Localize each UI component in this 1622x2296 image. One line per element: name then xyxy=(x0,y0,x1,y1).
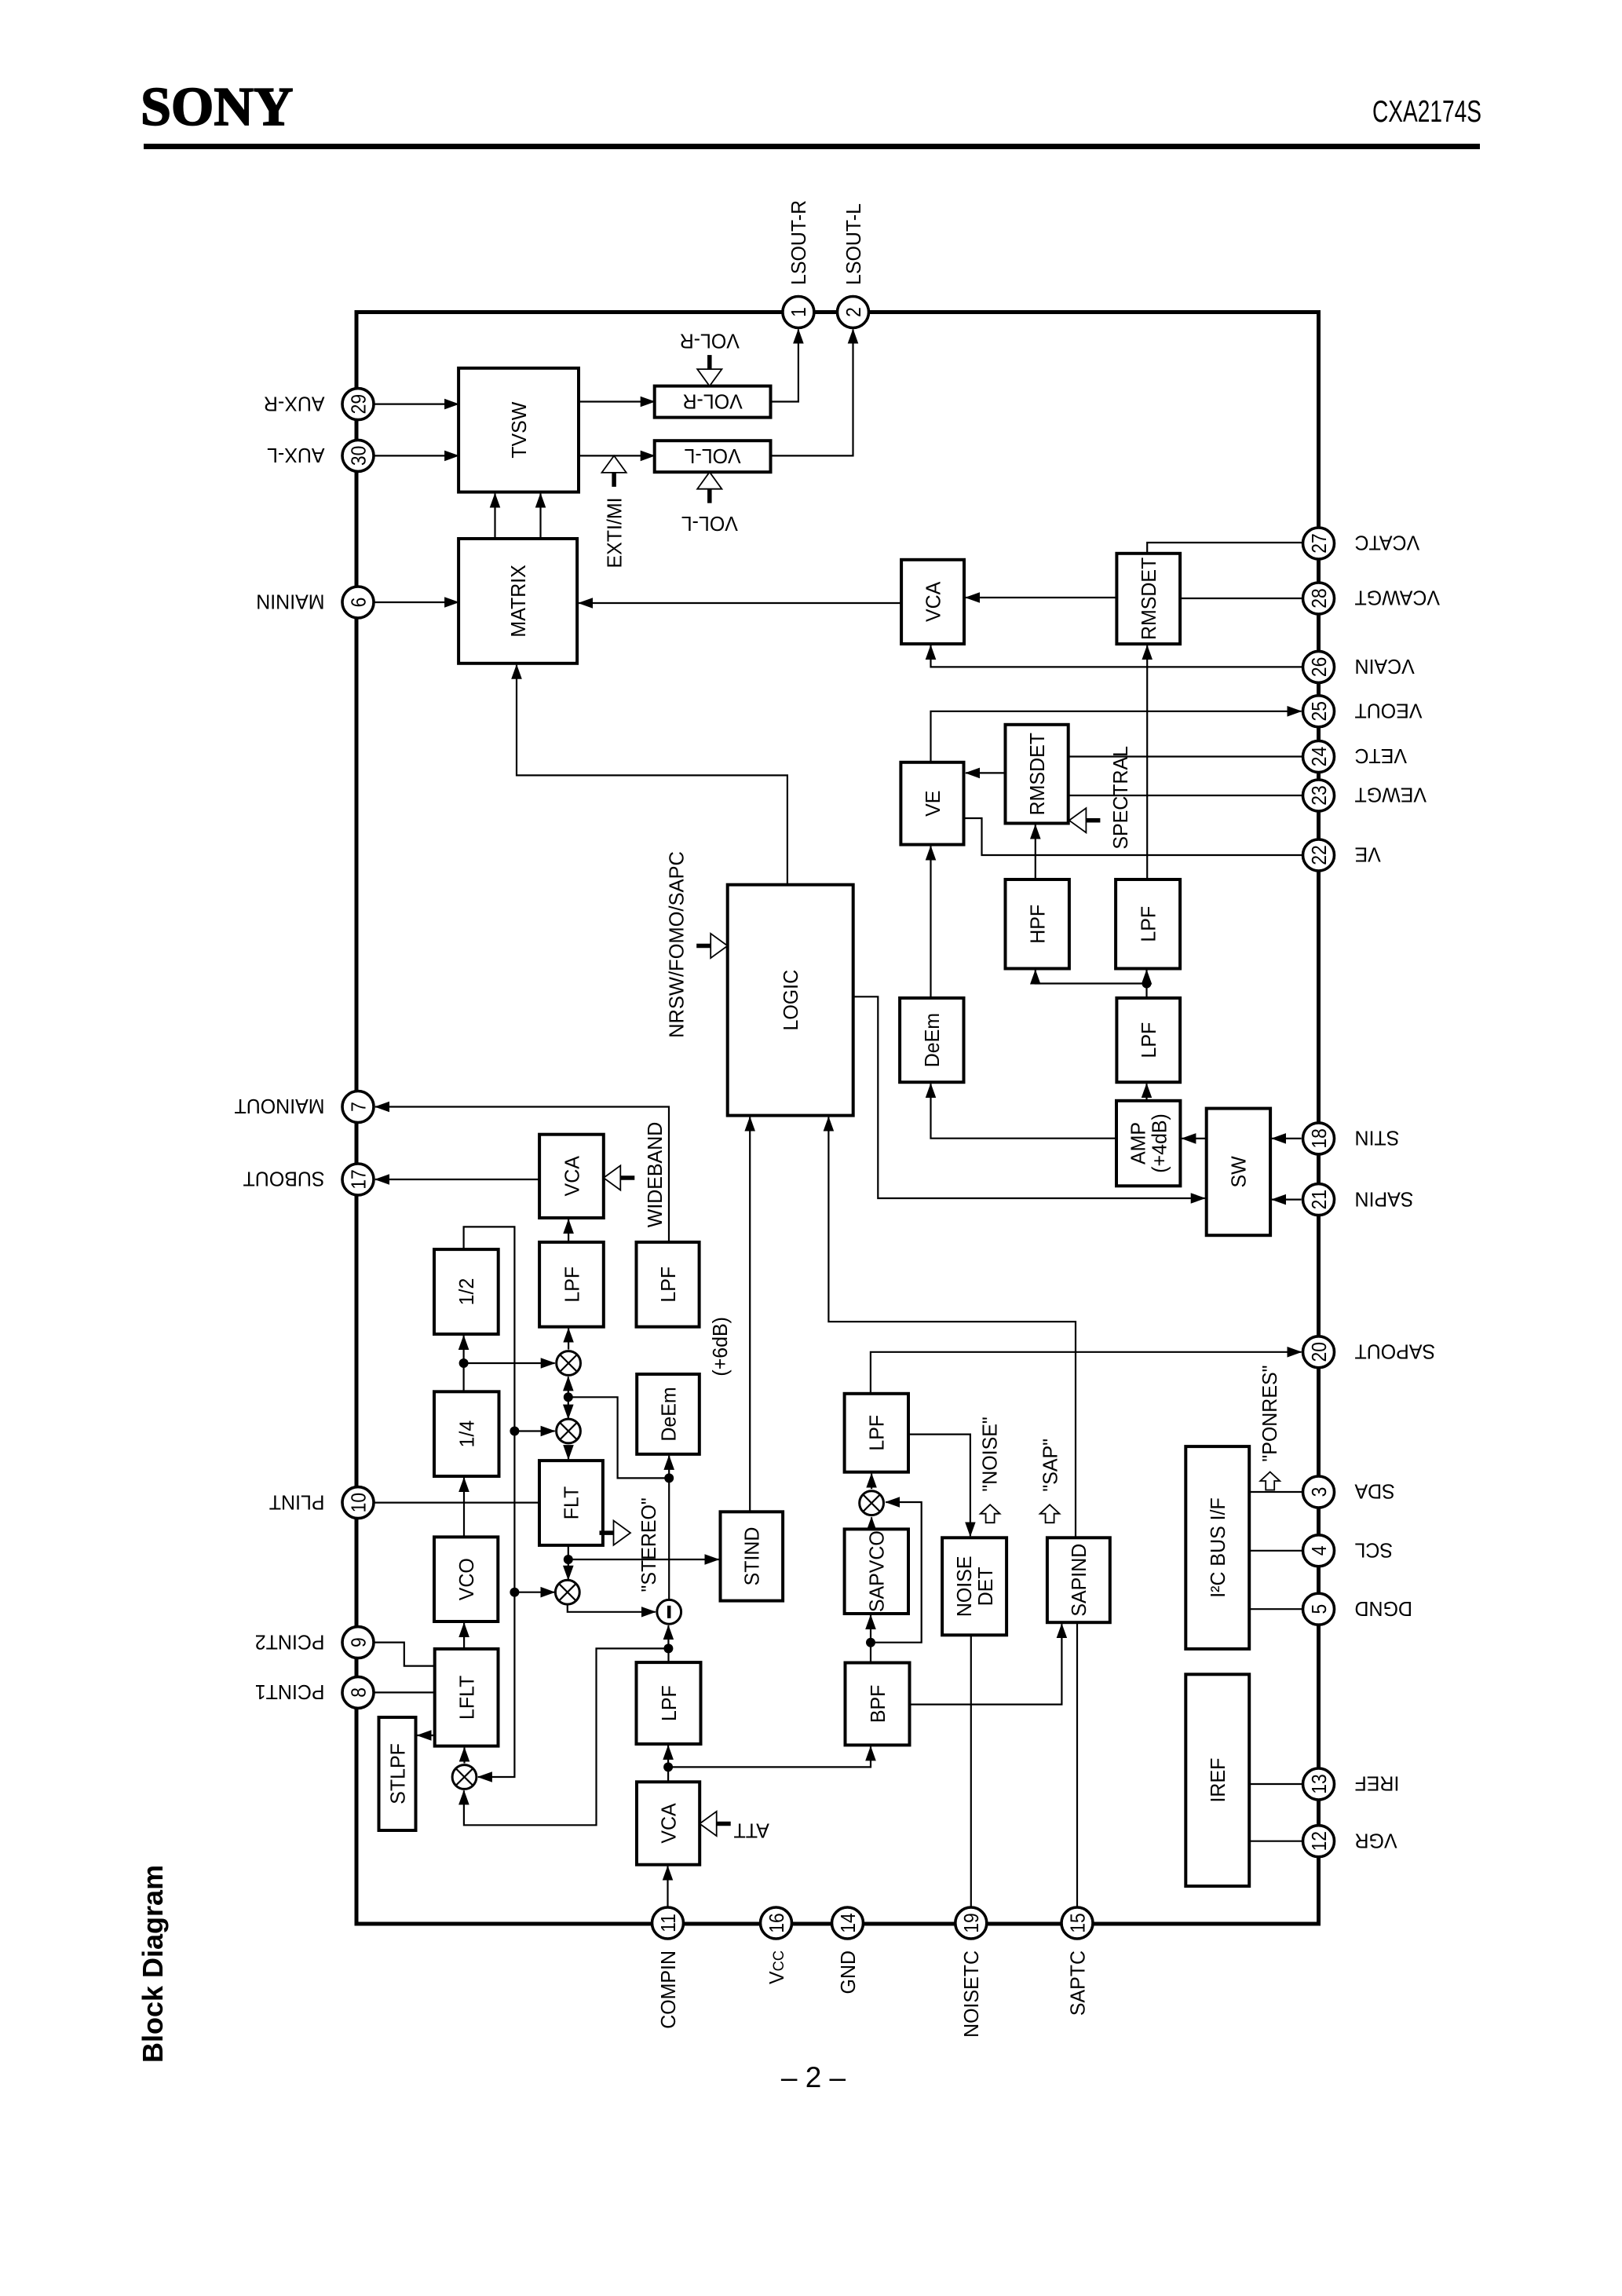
svg-text:3: 3 xyxy=(1308,1487,1331,1497)
svg-text:14: 14 xyxy=(837,1913,860,1932)
svg-text:LPF: LPF xyxy=(657,1267,680,1303)
svg-text:8: 8 xyxy=(348,1687,371,1698)
svg-text:LSOUT-L: LSOUT-L xyxy=(842,203,865,285)
svg-text:30: 30 xyxy=(348,446,371,466)
svg-text:VCAWGT: VCAWGT xyxy=(1354,587,1440,609)
svg-text:21: 21 xyxy=(1308,1190,1331,1209)
svg-text:18: 18 xyxy=(1308,1128,1331,1148)
svg-text:AUX-R: AUX-R xyxy=(263,392,324,415)
svg-text:15: 15 xyxy=(1067,1913,1090,1932)
svg-text:PCINT1: PCINT1 xyxy=(254,1680,324,1703)
svg-text:MATRIX: MATRIX xyxy=(507,565,530,637)
svg-text:27: 27 xyxy=(1308,533,1331,553)
svg-text:"NOISE": "NOISE" xyxy=(979,1417,1002,1491)
svg-text:LPF: LPF xyxy=(866,1415,889,1451)
svg-text:1: 1 xyxy=(787,307,810,317)
svg-text:I²C BUS I/F: I²C BUS I/F xyxy=(1207,1497,1229,1598)
svg-text:VOL-L: VOL-L xyxy=(681,512,737,535)
svg-text:LPF: LPF xyxy=(1138,1022,1160,1058)
svg-text:VCA: VCA xyxy=(657,1803,680,1843)
svg-text:1/2: 1/2 xyxy=(455,1278,478,1306)
svg-text:17: 17 xyxy=(348,1169,371,1189)
svg-text:DET: DET xyxy=(974,1567,997,1606)
svg-text:SAPTC: SAPTC xyxy=(1066,1951,1089,2016)
svg-text:7: 7 xyxy=(348,1102,371,1112)
svg-text:28: 28 xyxy=(1308,588,1331,608)
svg-text:6: 6 xyxy=(348,598,371,608)
svg-text:25: 25 xyxy=(1308,701,1331,721)
svg-text:23: 23 xyxy=(1308,785,1331,805)
svg-text:SAPIND: SAPIND xyxy=(1068,1544,1090,1617)
svg-text:IREF: IREF xyxy=(1207,1758,1229,1803)
svg-text:VCA: VCA xyxy=(922,582,944,622)
svg-text:10: 10 xyxy=(348,1493,371,1512)
svg-text:5: 5 xyxy=(1308,1604,1331,1614)
svg-text:NRSW/FOMO/SAPC: NRSW/FOMO/SAPC xyxy=(666,851,688,1038)
svg-text:LOGIC: LOGIC xyxy=(780,970,802,1031)
svg-text:ATT: ATT xyxy=(733,1819,769,1841)
svg-text:VCAIN: VCAIN xyxy=(1354,655,1414,678)
svg-text:TVSW: TVSW xyxy=(508,402,531,459)
svg-text:VCA: VCA xyxy=(561,1156,583,1196)
svg-text:VOL-R: VOL-R xyxy=(679,329,739,352)
svg-text:AMP: AMP xyxy=(1127,1122,1150,1164)
svg-text:SAPOUT: SAPOUT xyxy=(1354,1340,1435,1362)
svg-text:BPF: BPF xyxy=(867,1685,890,1724)
svg-text:LPF: LPF xyxy=(658,1685,681,1721)
svg-text:NOISE: NOISE xyxy=(953,1556,976,1617)
svg-text:EXTI/MI: EXTI/MI xyxy=(603,497,626,568)
svg-text:IREF: IREF xyxy=(1354,1772,1399,1795)
svg-text:2: 2 xyxy=(842,307,865,317)
svg-text:13: 13 xyxy=(1308,1774,1331,1793)
svg-text:STIN: STIN xyxy=(1354,1126,1399,1149)
svg-text:SPECTRAL: SPECTRAL xyxy=(1109,746,1132,850)
svg-text:DeEm: DeEm xyxy=(921,1013,944,1067)
svg-text:(+6dB): (+6dB) xyxy=(709,1317,732,1377)
svg-text:24: 24 xyxy=(1308,747,1331,766)
svg-text:MAINOUT: MAINOUT xyxy=(234,1095,324,1117)
svg-text:DGND: DGND xyxy=(1354,1597,1412,1620)
svg-text:VCATC: VCATC xyxy=(1354,532,1419,554)
svg-text:PCINT2: PCINT2 xyxy=(254,1630,324,1653)
svg-text:FLT: FLT xyxy=(561,1486,583,1519)
svg-text:VOL-R: VOL-R xyxy=(682,389,742,412)
svg-text:VOL-L: VOL-L xyxy=(684,444,740,467)
svg-text:VE: VE xyxy=(1354,843,1380,866)
svg-text:(+4dB): (+4dB) xyxy=(1149,1113,1171,1173)
svg-text:VE: VE xyxy=(922,791,944,817)
svg-text:VCC: VCC xyxy=(765,1951,788,1984)
svg-text:LPF: LPF xyxy=(561,1267,583,1303)
svg-text:COMPIN: COMPIN xyxy=(657,1951,680,2029)
svg-text:SW: SW xyxy=(1228,1156,1251,1187)
svg-text:12: 12 xyxy=(1308,1831,1331,1851)
svg-text:26: 26 xyxy=(1308,657,1331,677)
svg-text:4: 4 xyxy=(1308,1545,1331,1556)
svg-text:MAININ: MAININ xyxy=(256,590,324,613)
svg-text:SCL: SCL xyxy=(1354,1538,1393,1561)
svg-text:NOISETC: NOISETC xyxy=(960,1951,983,2038)
svg-text:GND: GND xyxy=(837,1951,860,1994)
svg-text:RMSDET: RMSDET xyxy=(1138,558,1160,640)
svg-text:PLINT: PLINT xyxy=(269,1490,324,1513)
svg-text:19: 19 xyxy=(960,1913,983,1932)
svg-text:HPF: HPF xyxy=(1027,905,1050,944)
svg-text:SUBOUT: SUBOUT xyxy=(243,1168,324,1190)
svg-text:LPF: LPF xyxy=(1137,906,1160,942)
svg-text:STIND: STIND xyxy=(741,1527,764,1586)
svg-text:20: 20 xyxy=(1308,1342,1331,1362)
svg-text:STLPF: STLPF xyxy=(386,1743,409,1804)
svg-text:"STEREO": "STEREO" xyxy=(637,1497,660,1592)
svg-text:16: 16 xyxy=(765,1913,788,1932)
svg-text:29: 29 xyxy=(348,394,371,414)
svg-text:LFLT: LFLT xyxy=(455,1676,478,1720)
svg-text:WIDEBAND: WIDEBAND xyxy=(644,1122,667,1227)
svg-text:SDA: SDA xyxy=(1354,1480,1394,1503)
svg-text:VEWGT: VEWGT xyxy=(1354,784,1426,806)
svg-text:11: 11 xyxy=(657,1914,680,1932)
svg-text:RMSDET: RMSDET xyxy=(1026,733,1049,815)
svg-text:9: 9 xyxy=(348,1637,371,1647)
svg-text:22: 22 xyxy=(1308,845,1331,865)
svg-text:SAPIN: SAPIN xyxy=(1354,1187,1413,1210)
svg-text:"SAP": "SAP" xyxy=(1039,1439,1061,1492)
svg-text:VEOUT: VEOUT xyxy=(1354,699,1422,722)
svg-text:SAPVCO: SAPVCO xyxy=(866,1530,889,1612)
svg-text:"PONRES": "PONRES" xyxy=(1259,1366,1281,1462)
svg-text:VCO: VCO xyxy=(455,1558,478,1600)
svg-text:AUX-L: AUX-L xyxy=(267,444,324,466)
svg-text:DeEm: DeEm xyxy=(657,1387,680,1441)
svg-text:VETC: VETC xyxy=(1354,744,1407,767)
svg-text:VGR: VGR xyxy=(1354,1829,1397,1852)
svg-text:LSOUT-R: LSOUT-R xyxy=(787,200,810,285)
svg-text:1/4: 1/4 xyxy=(456,1420,479,1448)
